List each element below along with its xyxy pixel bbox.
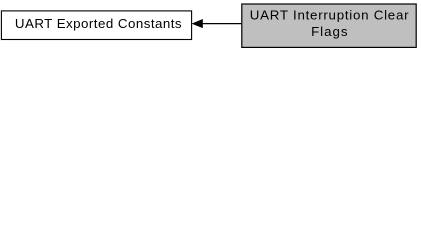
svg-text:UART Exported Constants: UART Exported Constants — [15, 16, 182, 31]
edge arrowhead — [192, 20, 202, 28]
edge shaft (wire) — [202, 23, 242, 25]
svg-text:Flags: Flags — [311, 24, 348, 39]
node: UART Exported Constants (box) — [1, 11, 191, 40]
svg-text:UART Interruption Clear: UART Interruption Clear — [250, 7, 409, 22]
node: UART Interruption Clear Flags (filled box, current group) — [242, 4, 416, 47]
